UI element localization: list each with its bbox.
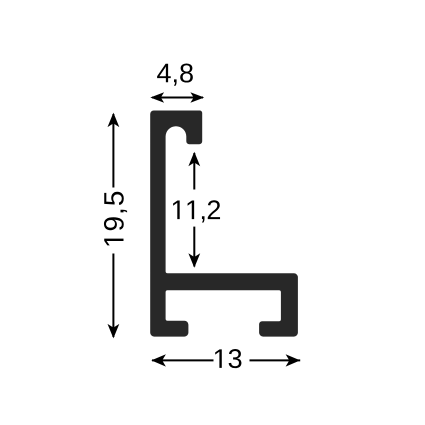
dimension line 11,2 lower segment bbox=[193, 227, 195, 267]
arrowhead up 19,5 bbox=[108, 113, 120, 128]
label 13 bbox=[215, 349, 241, 368]
arrowhead right 13 bbox=[286, 354, 301, 366]
dimension 19,5 (left, total height of profile) bbox=[104, 113, 127, 339]
aluminium profile cross-section bbox=[150, 111, 298, 337]
dimension line 11,2 upper segment bbox=[193, 153, 195, 190]
arrowhead left 4,8 bbox=[150, 92, 164, 102]
dimension line 19,5 upper segment bbox=[112, 114, 114, 188]
dimension 11,2 (inner height between hook lip and bottom flange) bbox=[173, 152, 220, 268]
arrowhead down 19,5 bbox=[108, 324, 120, 339]
dimension line 13 left segment bbox=[152, 359, 214, 361]
label 19,5 (rotated) bbox=[104, 192, 127, 246]
dimension line 13 right segment bbox=[250, 359, 301, 361]
arrowhead left 13 bbox=[151, 354, 166, 366]
dimension 4,8 (top width of profile cap) bbox=[150, 63, 204, 102]
arrowhead right 4,8 bbox=[190, 92, 204, 102]
label 4,8 bbox=[157, 63, 193, 85]
dimension 13 (bottom width of profile base) bbox=[151, 349, 300, 368]
arrowhead up 11,2 bbox=[188, 152, 200, 167]
label 11,2 bbox=[173, 200, 220, 222]
dimension line 19,5 lower segment bbox=[112, 254, 114, 338]
arrowhead down 11,2 bbox=[188, 253, 200, 267]
dimension line 4,8 bbox=[152, 97, 203, 99]
